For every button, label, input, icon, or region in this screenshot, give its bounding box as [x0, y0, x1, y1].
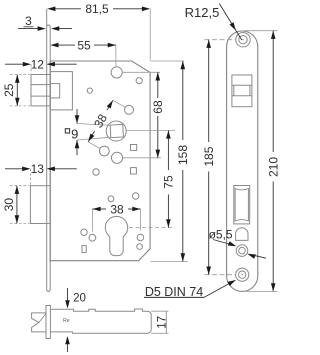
- dimension 158 extension lines: [151, 60, 185, 62]
- svg-text:75: 75: [162, 175, 176, 189]
- dimension 55: [54, 44, 75, 46]
- cylinder screw hole right b: [137, 244, 143, 250]
- small square cutout S4: [82, 246, 86, 253]
- latch opening in faceplate: [232, 75, 252, 107]
- top screw hole: [236, 33, 250, 47]
- cylinder screw hole (5.5mm): [236, 245, 248, 257]
- dimension 75: [167, 130, 169, 170]
- dimension 38 extension lines: [91, 209, 93, 232]
- small hole C3: [87, 88, 92, 93]
- dimension 17 extension lines: [151, 310, 168, 312]
- svg-text:17: 17: [156, 316, 168, 329]
- D-shaped hole: [236, 228, 248, 241]
- small hole C11: [93, 169, 99, 175]
- svg-text:20: 20: [73, 293, 86, 305]
- bottom screw hole: [236, 268, 249, 281]
- dimension 68: [157, 72, 159, 98]
- dimension 17: [165, 311, 167, 333]
- dimension 185 extension lines: [205, 39, 236, 41]
- svg-text:38: 38: [110, 202, 124, 216]
- lock case outline: [50, 61, 150, 261]
- fixing hole C6 (38 diag lower): [99, 146, 109, 156]
- dimension 185: [208, 40, 210, 142]
- dimension 13: [5, 168, 29, 170]
- svg-text:R12,5: R12,5: [185, 5, 220, 20]
- dimension square-9 extension lines: [77, 124, 110, 126]
- latch bolt (front view): [31, 75, 50, 106]
- fixing hole C4 (38 diag upper): [125, 105, 134, 114]
- dimension 38 diagonal: [107, 100, 113, 110]
- dimension 25 extension lines: [10, 74, 30, 76]
- svg-text:9: 9: [71, 126, 78, 141]
- svg-text:55: 55: [77, 39, 91, 53]
- dimension 12: [5, 63, 30, 65]
- faceplate edge view (side profile, 3mm thick): [47, 9, 51, 292]
- svg-text:81,5: 81,5: [85, 2, 109, 16]
- cylinder screw hole right a: [137, 234, 144, 241]
- dimension 13 extension line: [29, 169, 31, 185]
- dimension 81,5: [52, 8, 81, 10]
- svg-text:210: 210: [266, 157, 280, 177]
- dimension 12 extension line: [30, 64, 32, 73]
- dimension square-9: [76, 109, 78, 124]
- hub mounting hole top C1: [111, 67, 122, 78]
- dimension 210 extension lines: [244, 30, 278, 32]
- small square cutout S2: [131, 145, 137, 151]
- svg-text:30: 30: [2, 198, 16, 212]
- dimension 38 horizontal: [92, 208, 106, 210]
- small hole C12: [108, 196, 114, 202]
- svg-text:158: 158: [176, 145, 190, 165]
- svg-text:185: 185: [202, 146, 216, 166]
- bottom view latch bolt (bevel): [32, 313, 46, 332]
- euro profile cylinder hole: [105, 216, 127, 255]
- deadbolt opening in faceplate: [234, 186, 250, 224]
- dimension 68 extension lines: [122, 71, 160, 73]
- deadbolt (front view): [30, 186, 50, 224]
- dimension 20: [67, 288, 69, 302]
- dimension 75 extension lines: [126, 129, 175, 131]
- dimension 25: [16, 75, 18, 106]
- small hole C13: [132, 193, 138, 199]
- spindle follower circle: [106, 121, 126, 141]
- dimension 210: [272, 31, 274, 152]
- faceplate front view outline: [227, 31, 258, 291]
- cylinder screw hole left b: [89, 234, 96, 241]
- dimension 3 (faceplate thickness): [18, 28, 39, 30]
- svg-text:13: 13: [31, 162, 45, 176]
- hub mounting hole bottom C7: [111, 152, 122, 163]
- latch follower square (in guide box): [50, 84, 60, 98]
- cylinder screw hole left a: [81, 229, 87, 235]
- spindle follower square 9mm: [110, 124, 123, 137]
- bottom view faceplate bar: [46, 306, 50, 339]
- dimension 158: [182, 61, 184, 140]
- svg-text:ø5,5: ø5,5: [209, 228, 233, 242]
- svg-text:68: 68: [151, 100, 165, 114]
- svg-text:3: 3: [25, 14, 32, 28]
- small square cutout S3: [131, 168, 137, 174]
- dimension 30: [16, 186, 18, 224]
- dimension 30 extension lines: [10, 185, 29, 187]
- dimension 81,5 extension line (case rear): [149, 9, 151, 61]
- svg-text:12: 12: [31, 57, 45, 71]
- dimension 55 extension line (spindle axis): [115, 45, 117, 66]
- latch guide box: [50, 72, 72, 110]
- small hole C2: [136, 78, 142, 84]
- svg-text:Re: Re: [63, 318, 70, 324]
- svg-text:25: 25: [2, 83, 16, 97]
- bottom view lock body: [50, 309, 151, 333]
